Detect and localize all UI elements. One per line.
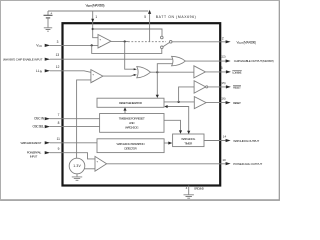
svg-text:8: 8 (58, 121, 60, 125)
svg-text:+: + (96, 159, 98, 163)
svg-text:DETECTOR: DETECTOR (124, 146, 137, 150)
svg-text:BATT ON (MAX696): BATT ON (MAX696) (156, 15, 196, 19)
svg-text:+: + (99, 38, 101, 42)
svg-text:AND: AND (129, 121, 135, 125)
svg-text:GROUND: GROUND (194, 186, 205, 190)
svg-text:-: - (93, 79, 94, 83)
svg-text:(MAX697) CHIP ENABLE INPUT: (MAX697) CHIP ENABLE INPUT (3, 58, 43, 62)
svg-text:13: 13 (56, 53, 60, 57)
svg-text:WATCHDOG OUTPUT: WATCHDOG OUTPUT (233, 139, 259, 143)
svg-text:RESET: RESET (233, 85, 241, 89)
svg-text:+: + (50, 11, 52, 15)
svg-text:WATCHDOG: WATCHDOG (125, 126, 139, 130)
svg-text:12: 12 (56, 65, 60, 69)
svg-text:(15): (15) (221, 81, 226, 85)
svg-text:LOW LINE: LOW LINE (232, 70, 241, 74)
svg-text:11: 11 (57, 137, 61, 141)
svg-text:VOUT (MAX696): VOUT (MAX696) (237, 40, 257, 44)
svg-text:TIMER: TIMER (184, 141, 193, 145)
svg-text:LLIN: LLIN (36, 69, 42, 73)
svg-text:(16): (16) (221, 97, 226, 101)
svg-text:CHIP ENABLE OUTPUT (MAX697): CHIP ENABLE OUTPUT (MAX697) (234, 59, 274, 63)
svg-text:WATCHDOG INPUT: WATCHDOG INPUT (21, 141, 42, 145)
svg-text:-: - (97, 167, 98, 171)
svg-text:TIMEBASE FOR RESET: TIMEBASE FOR RESET (119, 117, 145, 121)
svg-text:1: 1 (95, 15, 97, 19)
svg-text:5: 5 (144, 15, 146, 19)
svg-text:(12): (12) (221, 55, 226, 59)
svg-text:10: 10 (222, 158, 226, 162)
svg-text:14: 14 (223, 135, 227, 139)
svg-text:INPUT: INPUT (30, 155, 38, 159)
svg-text:1.3V: 1.3V (73, 164, 81, 168)
svg-text:WATCHDOG TRANSITION: WATCHDOG TRANSITION (117, 142, 145, 146)
svg-text:OSC SEL: OSC SEL (33, 125, 45, 129)
svg-text:9: 9 (58, 147, 60, 151)
svg-text:3: 3 (57, 40, 59, 44)
svg-text:OSC IN: OSC IN (34, 117, 45, 121)
svg-text:VBATT (MAX696): VBATT (MAX696) (86, 3, 105, 8)
svg-text:2: 2 (222, 36, 224, 40)
svg-text:VCC: VCC (36, 44, 42, 48)
svg-text:POWER-FAIL OUTPUT: POWER-FAIL OUTPUT (233, 162, 262, 166)
svg-text:WATCHDOG: WATCHDOG (181, 137, 196, 141)
svg-text:7: 7 (58, 113, 60, 117)
svg-text:6: 6 (221, 66, 223, 70)
svg-text:RESET GENERATOR: RESET GENERATOR (119, 101, 143, 105)
svg-text:+: + (92, 72, 94, 76)
svg-text:-: - (100, 44, 101, 48)
svg-text:RESET: RESET (233, 101, 241, 105)
